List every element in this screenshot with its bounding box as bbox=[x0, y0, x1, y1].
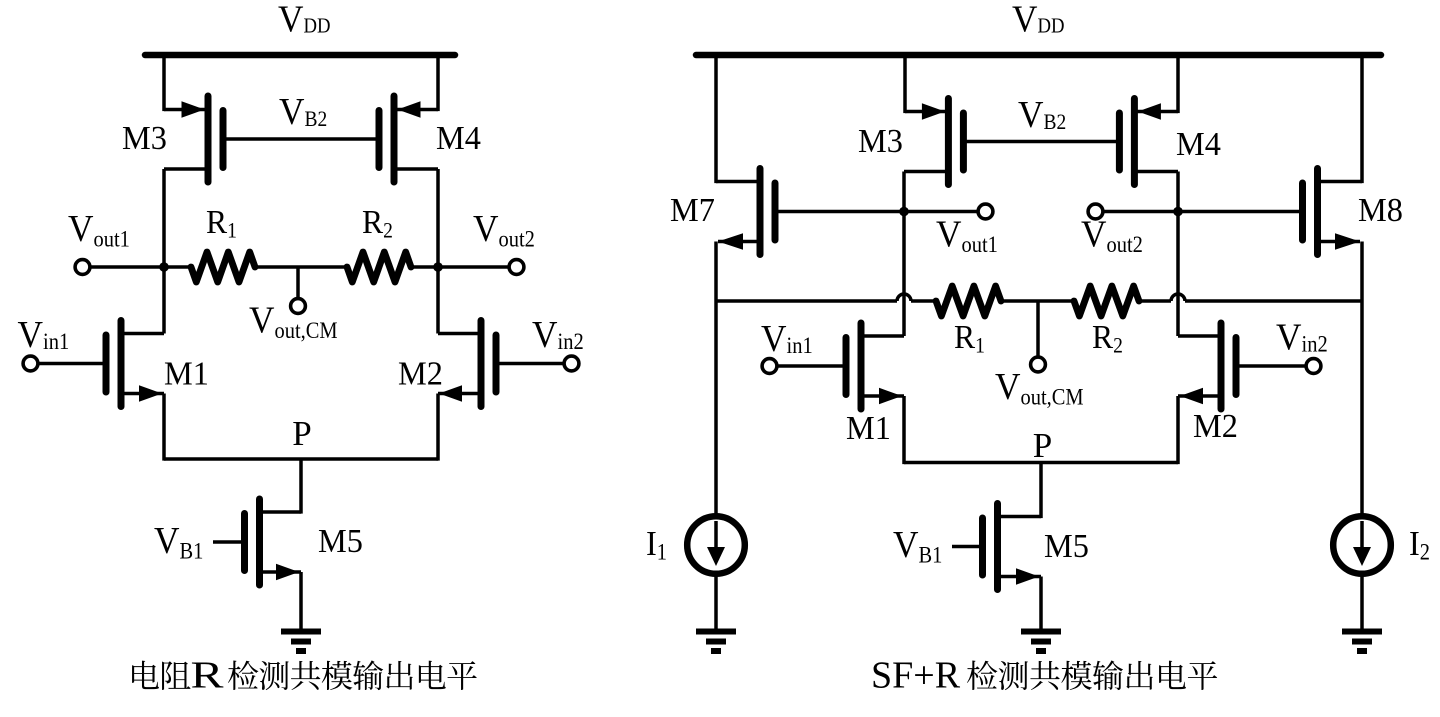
wire R1 to R2 (right) bbox=[1001, 299, 1074, 303]
ground (left circuit) bbox=[281, 629, 321, 635]
svg-text:R: R bbox=[1092, 319, 1113, 356]
svg-text:out2: out2 bbox=[1107, 232, 1143, 257]
svg-text:V: V bbox=[249, 300, 275, 342]
svg-text:B2: B2 bbox=[1044, 109, 1067, 134]
wire M2 source to node P (right) bbox=[1176, 396, 1180, 464]
svg-text:V: V bbox=[154, 520, 180, 562]
wire M2 source to node P bbox=[436, 394, 440, 461]
wire tail node P (right) bbox=[904, 461, 1178, 465]
terminal Vout2 (left) bbox=[438, 265, 509, 269]
transistor M3 (PMOS) bbox=[164, 96, 223, 182]
junction node at M7 gate bbox=[899, 207, 909, 217]
svg-text:R: R bbox=[954, 319, 975, 356]
wire VB1 gate lead (right) bbox=[952, 545, 979, 549]
svg-text:R: R bbox=[362, 204, 383, 241]
svg-text:V: V bbox=[1276, 317, 1302, 359]
svg-text:V: V bbox=[761, 318, 787, 360]
resistor R2 (left) bbox=[347, 252, 411, 282]
wire Vin1 gate lead (right) bbox=[777, 364, 843, 368]
wire R2 to M8 source (with hop) bbox=[1139, 299, 1171, 303]
svg-text:1: 1 bbox=[227, 218, 237, 243]
svg-text:V: V bbox=[1012, 0, 1038, 41]
svg-text:V: V bbox=[532, 314, 558, 356]
caption: SF+R检测共模输出电平 bbox=[871, 655, 1217, 697]
wire M8 gate line bbox=[1178, 210, 1299, 214]
svg-text:out1: out1 bbox=[962, 232, 998, 257]
svg-text:out1: out1 bbox=[94, 227, 130, 252]
svg-text:V: V bbox=[18, 314, 44, 356]
current source I1 bbox=[687, 516, 745, 574]
svg-text:P: P bbox=[292, 414, 311, 453]
wire M1 source to node P bbox=[162, 394, 166, 461]
svg-text:in2: in2 bbox=[1302, 332, 1328, 357]
svg-text:M1: M1 bbox=[164, 356, 209, 393]
transistor M4 (PMOS) bbox=[379, 96, 438, 182]
transistor M2 (NMOS, right circuit) bbox=[1178, 323, 1236, 409]
caption: 电阻R检测共模输出电平 bbox=[132, 655, 477, 697]
wire VB2 gate line (right) bbox=[963, 140, 1119, 144]
svg-text:R: R bbox=[206, 204, 227, 241]
transistor M4 (PMOS, right circuit) bbox=[1119, 99, 1178, 185]
svg-text:V: V bbox=[995, 366, 1021, 408]
svg-text:V: V bbox=[278, 0, 304, 41]
svg-text:M5: M5 bbox=[318, 523, 363, 560]
transistor M5 (NMOS) bbox=[245, 499, 302, 585]
svg-text:I: I bbox=[1409, 524, 1420, 563]
svg-text:2: 2 bbox=[383, 218, 393, 243]
wire Vin1 gate lead (left) bbox=[38, 362, 103, 366]
terminal Vin2 (left) bbox=[564, 356, 579, 371]
ground (M5, right circuit) bbox=[1021, 629, 1061, 635]
transistor M2 (NMOS) bbox=[438, 321, 496, 407]
svg-text:R: R bbox=[191, 655, 225, 697]
terminal Vout1 (left) bbox=[75, 260, 90, 275]
VDD rail (right circuit) bbox=[696, 52, 1381, 59]
svg-text:in1: in1 bbox=[43, 329, 69, 354]
svg-text:SF+R: SF+R bbox=[871, 655, 961, 697]
terminal Vout2 (right) bbox=[1103, 210, 1178, 214]
wire Vin2 gate lead (right) bbox=[1240, 364, 1307, 368]
svg-text:out,CM: out,CM bbox=[1021, 385, 1084, 410]
wire M7 source down to resistor row and I1 bbox=[714, 242, 718, 515]
svg-text:B1: B1 bbox=[180, 539, 204, 564]
terminal Vin1 (left) bbox=[23, 356, 38, 371]
svg-text:V: V bbox=[279, 91, 305, 133]
svg-text:V: V bbox=[1018, 94, 1044, 136]
svg-text:2: 2 bbox=[1420, 540, 1430, 565]
svg-text:B2: B2 bbox=[305, 106, 328, 131]
junction node Vout2 (left circuit) bbox=[433, 262, 443, 272]
wire rail to M3 source (right) bbox=[903, 55, 907, 113]
transistor M1 (NMOS) bbox=[106, 321, 164, 407]
wire M8 source down to resistor row and I2 bbox=[1360, 242, 1364, 515]
svg-text:V: V bbox=[936, 214, 962, 256]
wire hop over node 2 bbox=[1171, 294, 1185, 301]
svg-text:V: V bbox=[68, 208, 94, 250]
svg-text:DD: DD bbox=[1038, 14, 1065, 38]
wire rail to M3 source bbox=[162, 55, 166, 111]
resistor R1 (left) bbox=[164, 265, 191, 269]
junction node at M8 gate bbox=[1173, 207, 1183, 217]
VDD rail (left circuit) bbox=[145, 52, 455, 59]
ground (I2) bbox=[1342, 629, 1382, 635]
transistor M1 (NMOS, right circuit) bbox=[846, 323, 904, 409]
svg-text:out,CM: out,CM bbox=[275, 318, 338, 343]
junction node Vout1 (left) bbox=[159, 262, 169, 272]
wire VB1 gate lead (left) bbox=[213, 540, 241, 544]
wire rail to M4 source bbox=[436, 55, 440, 111]
svg-text:M4: M4 bbox=[1176, 126, 1221, 163]
wire M7 source to R1 (with hop) bbox=[716, 299, 897, 303]
svg-text:M8: M8 bbox=[1358, 192, 1403, 229]
transistor M7 (NMOS source follower) bbox=[716, 169, 775, 255]
svg-text:out2: out2 bbox=[499, 227, 535, 252]
ground (I1) bbox=[696, 629, 736, 635]
wire tail node P (left) bbox=[164, 457, 438, 461]
svg-text:I: I bbox=[646, 524, 657, 563]
terminal Vout1 (right) bbox=[904, 210, 978, 214]
transistor M5 (NMOS, right circuit) bbox=[983, 504, 1042, 590]
svg-text:1: 1 bbox=[657, 540, 667, 565]
wire rail to M7 drain bbox=[714, 55, 718, 183]
terminal Vout,CM (right) bbox=[1036, 301, 1040, 356]
svg-text:M1: M1 bbox=[846, 410, 891, 447]
terminal Vin1 (right) bbox=[762, 359, 777, 374]
wire M1 source to node P (right) bbox=[902, 396, 906, 464]
transistor M3 (PMOS, right circuit) bbox=[904, 99, 963, 185]
wire M5 source to ground bbox=[299, 572, 303, 629]
wire M4 drain to M2 drain (right, node 2) bbox=[1176, 172, 1180, 337]
svg-text:V: V bbox=[473, 208, 499, 250]
wire P to M5 drain bbox=[299, 459, 303, 514]
resistor R2 (right) bbox=[1074, 286, 1139, 316]
svg-text:M7: M7 bbox=[670, 192, 715, 229]
svg-text:1: 1 bbox=[975, 333, 985, 358]
terminal Vout,CM (left) bbox=[296, 267, 300, 297]
wire I1 to ground bbox=[714, 575, 718, 629]
wire M4 drain to M2 drain (node Vout2 branch) bbox=[436, 169, 440, 334]
svg-text:M3: M3 bbox=[122, 120, 167, 157]
wire P to M5 drain (right) bbox=[1039, 463, 1043, 519]
wire rail to M8 drain bbox=[1360, 55, 1364, 183]
wire rail to M4 source (right) bbox=[1176, 55, 1180, 113]
svg-text:V: V bbox=[893, 524, 919, 566]
svg-text:in2: in2 bbox=[558, 329, 584, 354]
wire VB2 gate line (left) bbox=[223, 137, 379, 141]
svg-text:M2: M2 bbox=[1193, 408, 1238, 445]
wire Vin2 gate lead (left) bbox=[500, 362, 565, 366]
wire M7 gate line bbox=[779, 210, 905, 214]
svg-text:M5: M5 bbox=[1044, 528, 1089, 565]
wire M3 drain to M1 drain (node Vout1 branch) bbox=[162, 169, 166, 334]
svg-text:2: 2 bbox=[1113, 333, 1123, 358]
svg-text:P: P bbox=[1033, 426, 1052, 465]
wire M3 drain to M1 drain (right, node 1) bbox=[902, 172, 906, 337]
wire M5 source to ground (right) bbox=[1039, 577, 1043, 630]
wire R1 to R2 (left) bbox=[255, 265, 347, 269]
resistor R1 (right) bbox=[936, 286, 1001, 316]
svg-text:DD: DD bbox=[304, 14, 331, 38]
svg-text:M4: M4 bbox=[436, 120, 481, 157]
svg-text:M2: M2 bbox=[398, 356, 443, 393]
svg-text:B1: B1 bbox=[919, 543, 943, 568]
transistor M8 (NMOS source follower) bbox=[1303, 169, 1363, 255]
wire I2 to ground bbox=[1360, 575, 1364, 629]
wire hop over node 1 bbox=[897, 294, 911, 301]
terminal Vin2 (right) bbox=[1306, 359, 1321, 374]
svg-text:M3: M3 bbox=[858, 123, 903, 160]
svg-text:in1: in1 bbox=[787, 333, 813, 358]
svg-text:V: V bbox=[1081, 214, 1107, 256]
current source I2 bbox=[1333, 516, 1391, 574]
